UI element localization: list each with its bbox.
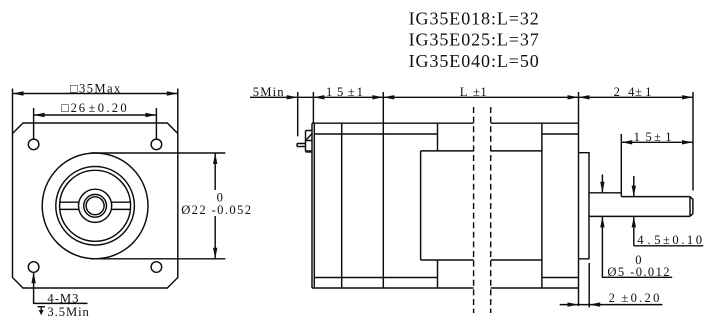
svg-text:1: 1	[645, 85, 651, 99]
motor can left edge	[420, 151, 422, 260]
svg-text:IG35E018:L=32: IG35E018:L=32	[409, 9, 539, 29]
hub cross bar right	[112, 202, 131, 209]
shaft bottom edge	[589, 215, 690, 217]
svg-text:IG35E040:L=50: IG35E040:L=50	[409, 51, 539, 71]
svg-text:±0.10: ±0.10	[663, 233, 702, 247]
side view outer bottom edge	[312, 287, 579, 289]
arrow 26 left	[34, 113, 45, 117]
connector body	[306, 131, 313, 152]
arrow dia5 down	[600, 182, 604, 193]
side view housing step vertical bottom	[437, 260, 439, 288]
arrow 2 right pointing left	[589, 302, 600, 306]
mounting hole top-left	[28, 139, 39, 150]
arrow 15 left	[313, 95, 324, 99]
svg-text:4-M3: 4-M3	[47, 291, 78, 305]
shaft inner chamfer circle	[86, 197, 104, 215]
svg-text:4.5: 4.5	[637, 233, 660, 247]
arrow 35Max left	[13, 91, 24, 95]
white mask behind dia22 text	[181, 190, 252, 216]
dia22 bottom tangent extension line	[91, 258, 225, 260]
hub cross bar left	[60, 202, 79, 209]
shaft circle dia 5	[84, 194, 107, 217]
svg-text:1: 1	[357, 85, 363, 99]
front view gearbox square body with chamfered corners	[13, 123, 178, 288]
shaft flat step	[620, 193, 622, 197]
depth symbol	[38, 307, 46, 316]
svg-text:±: ±	[654, 130, 661, 144]
dimension 2 line	[560, 304, 663, 306]
dia22 dimension line	[214, 153, 216, 259]
svg-text:□26: □26	[61, 101, 85, 115]
svg-text:±: ±	[635, 85, 642, 99]
extension line shaft tip	[692, 92, 694, 191]
break dashed line left	[473, 107, 475, 313]
svg-text:5Min: 5Min	[253, 85, 285, 99]
arrow 15 shaft right	[682, 140, 693, 144]
arrow L left	[383, 95, 394, 99]
extension line boss face	[588, 263, 590, 308]
svg-text:±0.20: ±0.20	[89, 101, 127, 115]
dimension 26 line	[34, 114, 157, 116]
dia5 leader arrow line	[601, 175, 603, 278]
svg-text:3.5Min: 3.5Min	[47, 305, 89, 319]
arrow dia5 up	[600, 216, 604, 227]
leader 4-M3	[34, 273, 88, 303]
pilot boss circle dia 22	[42, 153, 148, 259]
arrow 4.5 up	[632, 216, 636, 227]
extension line rear face	[312, 92, 314, 123]
arrow dia22 top	[213, 153, 217, 164]
svg-text:±: ±	[348, 85, 355, 99]
svg-text:1: 1	[480, 85, 486, 99]
svg-text:1: 1	[665, 130, 671, 144]
shaft top edge	[589, 192, 621, 194]
extension line shaft flat start	[620, 134, 622, 193]
svg-text:±0.20: ±0.20	[621, 291, 659, 305]
arrow L right	[568, 95, 579, 99]
connector pin	[297, 144, 306, 147]
arrow 15 right	[372, 95, 383, 99]
arrow 26 right	[145, 113, 156, 117]
side view section line C	[541, 123, 543, 288]
mounting hole bottom-right	[151, 262, 162, 273]
motor can bottom edge	[421, 259, 542, 261]
arrow 24 right	[682, 95, 693, 99]
dimension 35Max extension lines	[13, 89, 178, 134]
arrow 2 left pointing right	[568, 302, 579, 306]
dia22 top tangent extension line	[91, 152, 225, 154]
top dimension chain line	[250, 96, 693, 98]
break dashed line right	[490, 107, 492, 313]
side view inner bottom line	[314, 277, 578, 279]
dim 4.5 leader arrow line	[633, 176, 635, 246]
arrow 4-M3 leader	[31, 272, 35, 283]
side view inner top line	[314, 133, 578, 135]
side view rear cap left edge double line	[312, 123, 314, 288]
side view section line B with extension to dim line	[382, 92, 384, 288]
mounting hole bottom-left	[28, 262, 39, 273]
mounting hole top-right	[151, 139, 162, 150]
svg-text:2: 2	[609, 291, 615, 305]
side view section line A	[341, 123, 343, 288]
underline 4.5	[634, 245, 703, 247]
side view gearbox front face with extensions	[578, 92, 580, 306]
arrow 24 left	[579, 95, 590, 99]
svg-text:IG35E025:L=37: IG35E025:L=37	[409, 30, 539, 50]
front pilot boss side view	[579, 153, 590, 259]
svg-text:0: 0	[217, 191, 223, 205]
dimension 35Max line	[13, 93, 178, 95]
connector latch diagonal	[307, 133, 313, 139]
gearbox face ring inner circle	[60, 170, 131, 241]
dimension 15 shaft flat line	[621, 141, 693, 143]
extension line 5Min left	[297, 92, 299, 136]
arrow 5Min pointing right	[287, 95, 298, 99]
dimension 26 extension lines	[34, 108, 157, 139]
arrow dia22 bottom	[213, 248, 217, 259]
shaft tip chamfer	[690, 197, 693, 217]
motor can top edge	[421, 150, 542, 152]
underline dia5	[602, 276, 672, 278]
svg-text:L: L	[460, 85, 468, 99]
arrow 4.5 down	[632, 186, 636, 197]
shaft hub outer circle	[79, 189, 112, 222]
shaft flat top edge	[621, 196, 690, 198]
connector foot	[306, 150, 312, 152]
gearbox face ring outer circle	[56, 167, 135, 246]
arrow 35Max right	[167, 91, 178, 95]
side view housing step vertical top	[437, 123, 439, 151]
svg-text:±: ±	[473, 85, 480, 99]
side view outer top edge	[312, 122, 579, 124]
arrow 15 shaft left	[621, 140, 632, 144]
